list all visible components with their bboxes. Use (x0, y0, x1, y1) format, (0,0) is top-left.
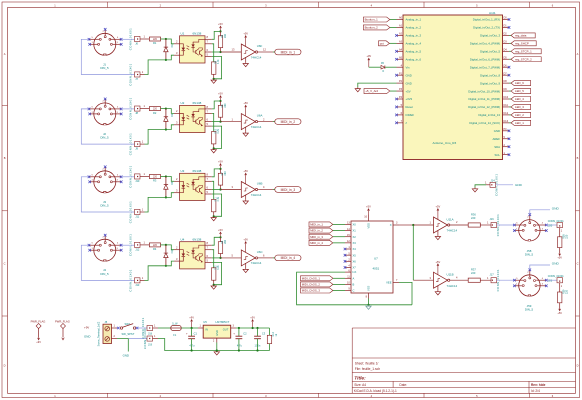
resistor R9 4.7k (212, 44, 221, 79)
no-connect marks J1 (88, 28, 123, 46)
power flag PWR_FLAG1 (31, 320, 46, 337)
power +5V (218, 22, 223, 31)
svg-text:R4: R4 (153, 247, 157, 251)
svg-text:pot: pot (380, 41, 384, 45)
power +9V (189, 316, 194, 329)
svg-text:CONN_01X01: CONN_01X01 (128, 28, 132, 50)
svg-text:X3: X3 (353, 241, 357, 245)
wire R36 to J16 (480, 221, 491, 225)
svg-text:J10: J10 (135, 179, 140, 183)
hier label reg_SHCP (509, 41, 536, 46)
DIN-5 MIDI output connector J58 (514, 215, 546, 257)
hier label Boutton_1 (363, 17, 396, 22)
svg-text:X7: X7 (353, 266, 357, 270)
label GND (515, 183, 523, 187)
wire J13 to junction (145, 266, 166, 281)
graphic line J3 pin5 to J11 (81, 177, 134, 212)
wire U3 pin6 to inverter U6B (212, 185, 241, 189)
svg-text:+5V: +5V (243, 238, 248, 242)
resistor R36 220 (468, 212, 480, 227)
svg-text:220: 220 (565, 289, 568, 294)
ground (214, 351, 219, 356)
svg-text:4.7k: 4.7k (217, 196, 220, 201)
junction (213, 215, 215, 217)
screw terminal J5 (98, 320, 118, 346)
wire U1 pin5 to ground (212, 57, 222, 79)
svg-text:U1: U1 (181, 32, 185, 36)
label GND (552, 206, 560, 210)
svg-text:reg_SHCP: reg_SHCP (515, 41, 529, 45)
power +9V (36, 337, 41, 344)
wire U6B output to label (258, 185, 275, 189)
resistor R4 220 (149, 243, 160, 251)
svg-text:Digital_in/Out_8: Digital_in/Out_8 (480, 73, 500, 77)
no-connect marks J2 (88, 98, 123, 116)
svg-text:220: 220 (471, 216, 476, 220)
hier label LED_5 (509, 89, 531, 94)
svg-text:U7: U7 (374, 256, 378, 260)
ground (355, 87, 360, 92)
svg-text:Analog_in_3: Analog_in_3 (406, 34, 422, 38)
junction (165, 175, 167, 177)
Arduino no-connect marks (395, 18, 510, 156)
svg-text:+5V: +5V (366, 205, 371, 209)
power +5V (218, 160, 223, 169)
svg-text:Arduino_Uno_R3: Arduino_Uno_R3 (433, 141, 457, 145)
junction (165, 59, 167, 61)
wire U4 pin6 to inverter U6C (212, 254, 241, 258)
svg-text:+9V: +9V (189, 316, 194, 320)
optocoupler U4 6N138 (180, 238, 212, 269)
power +5V (218, 228, 223, 237)
wire R to junction (161, 38, 166, 40)
label MIDI_ChOS_2 (301, 282, 346, 287)
ground (211, 285, 216, 290)
svg-text:D10: D10 (504, 96, 509, 99)
junction (219, 236, 221, 238)
hier label reg_STCP_2 (509, 57, 541, 62)
svg-text:CONN_01X01: CONN_01X01 (143, 328, 147, 349)
svg-text:Digital_in/Out_4_(PWM): Digital_in/Out_4_(PWM) (470, 42, 500, 46)
svg-text:DIN_5: DIN_5 (100, 272, 109, 276)
svg-text:U5: U5 (203, 320, 207, 324)
wire U5 output rail (236, 327, 270, 329)
svg-text:PWR_FLAG: PWR_FLAG (31, 320, 46, 324)
svg-text:VEE: VEE (386, 281, 392, 285)
label GND (123, 354, 129, 358)
svg-text:GND: GND (552, 262, 560, 266)
svg-text:+9V: +9V (84, 325, 89, 329)
hier label LED_6 (509, 81, 531, 86)
svg-text:DIN_5: DIN_5 (525, 253, 534, 257)
svg-text:+5V: +5V (218, 160, 223, 164)
svg-text:MIDI_in_3: MIDI_in_3 (281, 188, 296, 192)
label MIDI_in_2 (309, 228, 345, 233)
graphic line J4 pin5 to J13 (81, 245, 134, 280)
junction (165, 196, 167, 198)
wire U7 X output (399, 224, 413, 226)
junction (213, 147, 215, 149)
wire U6C output to label (258, 254, 275, 258)
connector J20 CONN_01X01 (548, 220, 565, 233)
svg-text:Id: 2/4: Id: 2/4 (531, 389, 540, 393)
wire VEE to rail (399, 282, 412, 304)
wire to U11A input (413, 221, 433, 225)
resistor R2 220 (149, 107, 160, 115)
graphic line J2 pin4 to J8 (121, 108, 134, 110)
svg-text:Digital_in/Out_14_(SCK): Digital_in/Out_14_(SCK) (469, 121, 500, 125)
svg-text:4.7u: 4.7u (237, 343, 243, 347)
svg-text:+3V3: +3V3 (406, 97, 413, 101)
svg-text:CONN_01X01: CONN_01X01 (128, 63, 132, 85)
svg-text:MIDI_ChOS_3: MIDI_ChOS_3 (302, 289, 321, 293)
ground (472, 188, 477, 193)
ground (211, 216, 216, 221)
svg-text:GND: GND (552, 206, 560, 210)
svg-text:AREF: AREF (493, 137, 501, 141)
svg-text:Digital_in/Out_6_(PWM): Digital_in/Out_6_(PWM) (470, 57, 500, 61)
regulator U5 LM7805CT (203, 320, 236, 342)
DIN-5 MIDI input connector J3 (89, 167, 121, 207)
inverter U6A 74HC14 (241, 101, 262, 136)
svg-text:File: feuille_1.sch: File: feuille_1.sch (355, 367, 381, 371)
optocoupler U3 6N138 (180, 169, 212, 200)
svg-text:X0: X0 (353, 223, 357, 227)
wire junction to U1 pin 3 (166, 51, 180, 60)
svg-text:R37: R37 (471, 268, 476, 272)
graphic line J14 to GND label (496, 184, 514, 186)
wire U4 pin8 to +5V (212, 237, 221, 245)
connector J8 CONN_01X01 (128, 97, 149, 119)
resistor R37 220 (468, 268, 480, 283)
svg-text:220: 220 (153, 108, 158, 111)
resistor R13 1k (267, 328, 278, 351)
svg-text:U6C: U6C (257, 250, 263, 254)
svg-text:B: B (353, 283, 355, 287)
svg-text:GND: GND (84, 335, 90, 339)
svg-text:+5V: +5V (436, 205, 441, 209)
wire R to junction (161, 108, 166, 110)
label MIDI_ChOS_3 (301, 288, 346, 293)
svg-text:4.7k: 4.7k (217, 265, 220, 270)
svg-text:C2: C2 (243, 332, 247, 336)
svg-text:LED_4: LED_4 (515, 97, 524, 101)
multiplexer U7 4051 (345, 215, 399, 299)
hier label pot (379, 41, 397, 46)
svg-text:PWR_FLAG: PWR_FLAG (55, 320, 70, 324)
svg-text:Digital_in/Out_10_(PWM): Digital_in/Out_10_(PWM) (468, 89, 500, 93)
svg-text:J19: J19 (148, 343, 153, 346)
svg-text:Analog_in_4: Analog_in_4 (406, 42, 422, 46)
svg-text:D12: D12 (504, 112, 509, 115)
svg-text:DIN_5: DIN_5 (100, 203, 109, 207)
connector J14 CONN_01X01 (485, 174, 498, 196)
svg-text:220: 220 (153, 38, 158, 41)
wire R to junction (161, 176, 166, 178)
label MIDI_in_3 (309, 234, 345, 239)
svg-text:CONN_01X01: CONN_01X01 (128, 269, 132, 291)
hier label reg_STCP_1 (509, 49, 541, 54)
junction (367, 304, 369, 306)
svg-text:4051: 4051 (373, 267, 380, 271)
ground (211, 79, 216, 84)
svg-text:VDD: VDD (367, 223, 371, 229)
svg-text:LM7805CT: LM7805CT (216, 320, 230, 324)
svg-text:SW_SPST: SW_SPST (122, 332, 135, 336)
svg-text:LED_6: LED_6 (515, 81, 524, 85)
no-connect marks J59 (513, 269, 548, 288)
power +5V (250, 316, 255, 330)
Arduino Uno R3 Ard1 (397, 11, 510, 160)
title block (352, 328, 575, 393)
DIN-5 MIDI output connector J59 (514, 270, 546, 312)
graphic line to J19 (128, 338, 147, 340)
svg-text:B: B (4, 156, 6, 160)
svg-text:Vin: Vin (406, 65, 410, 69)
svg-text:A: A (353, 276, 355, 280)
junction (165, 38, 167, 40)
wire J14 to ground (475, 185, 486, 188)
wire junction to U1 pin 2 (166, 39, 180, 44)
svg-text:MIDI_in_3: MIDI_in_3 (310, 235, 323, 239)
svg-text:Digital_in/Out_12_(PWM): Digital_in/Out_12_(PWM) (468, 105, 500, 109)
svg-text:Digital_in/Out_5: Digital_in/Out_5 (480, 50, 500, 54)
svg-text:J17: J17 (490, 272, 495, 276)
label MIDI_in_2 (275, 119, 301, 125)
hier label +5_V_Ard (364, 89, 397, 94)
svg-text:Date:: Date: (399, 383, 407, 387)
wire junction to U4 pin 2 (166, 245, 180, 250)
svg-text:Digital_in/Out_2_(TX): Digital_in/Out_2_(TX) (473, 26, 500, 30)
svg-text:Analog_in_2: Analog_in_2 (406, 26, 422, 30)
svg-text:+5V: +5V (243, 32, 248, 36)
svg-text:+5V: +5V (243, 169, 248, 173)
svg-text:+5V: +5V (557, 311, 562, 315)
svg-text:Digital_in/Out_13: Digital_in/Out_13 (479, 113, 501, 117)
capacitor C3 100n (254, 327, 266, 351)
svg-text:IOREF: IOREF (406, 113, 415, 117)
label MIDI_in_1 (275, 49, 301, 55)
power +5V U7 (366, 205, 371, 215)
wire junction to U4 pin 3 (166, 257, 180, 266)
svg-text:220: 220 (565, 234, 568, 239)
svg-text:Digital_in/Out_3: Digital_in/Out_3 (480, 34, 500, 38)
svg-text:+5_V_Ard: +5_V_Ard (365, 89, 378, 93)
svg-text:+5V: +5V (557, 256, 562, 260)
svg-text:IN: IN (205, 328, 208, 332)
svg-text:220: 220 (153, 244, 158, 247)
svg-text:74HC14: 74HC14 (251, 193, 262, 197)
svg-text:Rev: hide: Rev: hide (531, 383, 546, 387)
svg-text:4.7u: 4.7u (189, 343, 195, 347)
svg-text:reg_data: reg_data (515, 34, 527, 38)
wire U2 pin5 to ground (212, 126, 222, 148)
label MIDI_in_4 (309, 240, 345, 245)
svg-text:X1: X1 (353, 229, 357, 233)
svg-text:74HC14: 74HC14 (251, 261, 262, 265)
junction (219, 188, 221, 190)
svg-text:Analog_in_5: Analog_in_5 (406, 50, 422, 54)
svg-text:CONN_01X01: CONN_01X01 (128, 165, 132, 187)
inverter U11B 74HC14 (434, 260, 458, 295)
wire U2 pin8 to +5V (212, 101, 221, 109)
svg-text:R1: R1 (153, 41, 157, 45)
svg-text:4.7k: 4.7k (217, 59, 220, 64)
svg-text:74HC14: 74HC14 (251, 55, 262, 59)
svg-text:LED_2: LED_2 (515, 113, 524, 117)
label MIDI_in_4 (275, 255, 301, 261)
junction (219, 257, 221, 259)
junction (213, 284, 215, 286)
svg-text:GND: GND (515, 183, 523, 187)
wire junction to U2 pin 2 (166, 109, 180, 114)
svg-text:+5V: +5V (250, 316, 255, 320)
graphic line J3 pin4 to J10 (121, 176, 134, 178)
svg-text:CONN_01X01: CONN_01X01 (128, 97, 132, 119)
no-connect marks switch (117, 327, 138, 330)
resistor R11 4.7k (212, 181, 221, 216)
graphic line J1 pin4 to J6 (121, 38, 134, 40)
ground (366, 305, 371, 310)
svg-text:Sheet: /feuille 1/: Sheet: /feuille 1/ (355, 362, 379, 366)
inverter U11A 74HC14 (434, 205, 458, 240)
svg-text:Digital_in/Out_1_(RX): Digital_in/Out_1_(RX) (473, 18, 500, 22)
wire to regulator (181, 325, 203, 328)
svg-text:Inh: Inh (353, 270, 357, 274)
connector J17 CONN_01X01 (490, 269, 501, 291)
svg-text:Title:: Title: (354, 375, 366, 381)
svg-text:Ard1: Ard1 (489, 11, 496, 15)
connector J6 CONN_01X01 (128, 28, 149, 50)
connector J18 CONN_01X01 (141, 317, 158, 338)
svg-text:6N138: 6N138 (193, 101, 202, 105)
svg-text:LED_5: LED_5 (515, 89, 524, 93)
hier label LED_3 (509, 104, 531, 109)
DIN-5 MIDI input connector J4 (89, 235, 121, 275)
wire U5 GND (216, 343, 218, 351)
svg-text:R2: R2 (153, 111, 157, 115)
optocoupler U2 6N138 (180, 101, 212, 132)
wire U3 pin8 to +5V (212, 169, 221, 177)
svg-text:Digital_in/Out_7_(PWM): Digital_in/Out_7_(PWM) (470, 65, 500, 69)
graphic line J58 to J20 (546, 224, 557, 226)
resistor R39 220 (558, 283, 569, 309)
resistor R1 220 (149, 37, 160, 45)
resistor R3 220 (149, 175, 160, 183)
junction (165, 128, 167, 130)
graphic line J59 to J21 (546, 279, 557, 281)
svg-text:J11: J11 (135, 215, 140, 219)
svg-text:6N138: 6N138 (193, 32, 202, 36)
svg-text:X4: X4 (353, 247, 357, 251)
svg-text:D13: D13 (504, 120, 509, 123)
svg-text:DIN_5: DIN_5 (525, 308, 534, 312)
wire R37 to J17 (480, 276, 491, 280)
svg-text:D11: D11 (504, 104, 509, 107)
label MIDI_ChOS_1 (301, 276, 346, 281)
svg-text:280: 280 (224, 239, 227, 244)
svg-text:6N138: 6N138 (193, 169, 202, 173)
svg-text:220: 220 (471, 271, 476, 275)
svg-text:+5V: +5V (218, 22, 223, 26)
svg-text:U4: U4 (181, 238, 185, 242)
junction (412, 224, 414, 226)
svg-text:MIDI_in_4: MIDI_in_4 (310, 241, 323, 245)
power +5V (557, 253, 562, 259)
svg-text:4.7k: 4.7k (217, 128, 220, 133)
junction (165, 244, 167, 246)
inverter U6F 74HC14 (241, 32, 262, 67)
resistor R10 4.7k (212, 113, 221, 148)
svg-text:Size: A4: Size: A4 (354, 383, 366, 387)
wire R to junction (161, 244, 166, 246)
optocoupler U1 6N138 (180, 32, 212, 63)
svg-text:Screw_Terminal_1x02: Screw_Terminal_1x02 (98, 321, 101, 346)
svg-text:CONN_01X01: CONN_01X01 (548, 275, 565, 278)
label MIDI_in_3 (275, 187, 301, 193)
svg-text:74HC14: 74HC14 (447, 284, 458, 288)
svg-text:74HC14: 74HC14 (251, 125, 262, 129)
inverter U6C 74HC14 (241, 238, 262, 273)
wire junction to U2 pin 3 (166, 121, 180, 130)
svg-text:SCL: SCL (495, 153, 501, 157)
svg-text:CONN_01X01: CONN_01X01 (128, 234, 132, 256)
diode D5 (369, 63, 397, 73)
svg-text:280: 280 (224, 103, 227, 108)
label MIDI_in_1 (309, 222, 345, 227)
no-connect marks J58 (513, 213, 548, 232)
junction (213, 78, 215, 80)
wire junction to U3 pin 2 (166, 177, 180, 182)
svg-text:+5V: +5V (406, 89, 411, 93)
svg-text:A: A (4, 52, 6, 56)
svg-text:MIDI_ChOS_1: MIDI_ChOS_1 (302, 276, 321, 280)
graphic line J17 to DIN J59 (497, 279, 515, 281)
DIN-5 MIDI input connector J2 (89, 99, 121, 139)
wire VSS to rail (368, 299, 370, 305)
ground (211, 148, 216, 153)
junction (219, 121, 221, 123)
switch SW1 SW_SPST (120, 322, 135, 336)
wire U3 pin5 to ground (212, 194, 222, 216)
no-connect marks U7 X4-X7 (344, 248, 347, 269)
connector J19 CONN_01X01 (143, 328, 158, 349)
svg-text:280: 280 (224, 171, 227, 176)
svg-text:Reset: Reset (406, 105, 414, 109)
svg-text:C: C (353, 289, 355, 293)
svg-text:U6A: U6A (257, 114, 263, 118)
svg-text:280: 280 (224, 33, 227, 38)
svg-text:R3: R3 (153, 179, 157, 183)
svg-text:+9V: +9V (36, 340, 41, 344)
wire J9 to junction (145, 130, 166, 145)
wire terminal pin2 (117, 339, 128, 352)
graphic line J59 to GND (530, 265, 550, 270)
svg-text:C1: C1 (194, 332, 198, 336)
svg-text:A: A (577, 52, 579, 56)
svg-text:OUT: OUT (223, 328, 229, 332)
junction (219, 168, 221, 170)
resistor R38 220 (558, 228, 569, 254)
power +5V (218, 92, 223, 101)
wire U4 pin5 to ground (212, 262, 222, 284)
svg-text:X: X (390, 223, 392, 227)
inverter U6B 74HC14 (241, 169, 262, 204)
svg-text:X2: X2 (353, 235, 357, 239)
svg-text:Analog_in_1: Analog_in_1 (406, 18, 422, 22)
wire J7 to junction (145, 60, 166, 75)
svg-text:GND: GND (123, 354, 129, 358)
